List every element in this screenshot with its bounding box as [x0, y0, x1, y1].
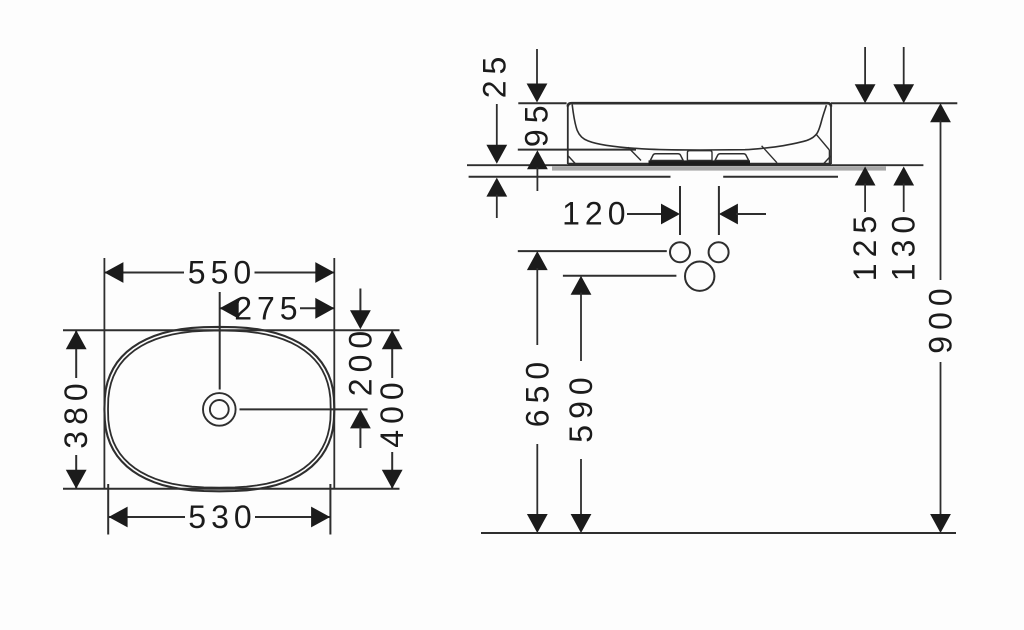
dim 200 upper tail [359, 289, 361, 314]
dim 380 line bottom segment [75, 455, 77, 489]
dim 530 left arrow [109, 507, 128, 528]
dim 125 lower tail [864, 184, 866, 213]
drain inner circle [210, 400, 229, 419]
dim 200 lower arrow [350, 409, 371, 428]
dim 95 lower tail [536, 168, 538, 192]
dim 900 upper arrow [930, 103, 951, 122]
dim 95 ref line bottom [518, 149, 636, 151]
dim 275 line left segment [220, 307, 232, 309]
top rim extension line right [831, 102, 957, 104]
dim 200 upper arrow [350, 310, 371, 329]
dim 400 top arrow [382, 330, 403, 349]
dim 400 bottom arrow [382, 470, 403, 489]
basin right outer wall [830, 105, 832, 164]
dim 200 lower tail [359, 427, 361, 449]
dim 120 left extension line [679, 186, 681, 235]
dim 95 upper tail [536, 49, 538, 87]
right inner extension line (530) [329, 484, 331, 535]
dim 590 lower arrow [571, 514, 592, 533]
dim 530 right arrow [311, 507, 330, 528]
svg-text:380: 380 [58, 377, 94, 448]
center drain plug [687, 151, 712, 161]
dim 275 left arrow [220, 298, 239, 319]
dim 550 line left segment [104, 272, 184, 274]
countertop underside left segment [469, 176, 671, 178]
floor line [481, 532, 956, 534]
svg-text:400: 400 [374, 376, 410, 447]
svg-text:125: 125 [847, 210, 883, 281]
basin top rim line (side view) [568, 103, 831, 106]
drain recess right slope [762, 146, 777, 163]
dim 130 lower arrow [893, 167, 914, 186]
right outer extension line [333, 258, 335, 489]
dim 130 lower tail [903, 184, 905, 213]
dim 125 lower arrow [855, 167, 876, 186]
dim 380 line top segment [75, 330, 77, 378]
left foot chamfer [568, 156, 575, 164]
svg-text:200: 200 [342, 325, 378, 396]
svg-text:275: 275 [234, 290, 302, 326]
dim 400 line top segment [391, 330, 393, 378]
drain horizontal reference line [240, 408, 368, 410]
countertop underside right segment [723, 176, 838, 178]
dim 380 top arrow [66, 330, 87, 349]
right foot chamfer [824, 156, 831, 164]
overflow channel diagonal [816, 134, 829, 150]
faucet hole center (large circle) [685, 262, 714, 291]
dim 900 lower arrow [930, 514, 951, 533]
dim 25 lower tail [496, 195, 498, 218]
left outer extension line [103, 258, 105, 489]
dim 530 line left segment [108, 516, 185, 518]
countertop top line [467, 164, 923, 166]
dim 275 right arrow [315, 298, 334, 319]
centerline vertical to drain [219, 292, 221, 390]
left strainer cover [650, 154, 683, 161]
dim 130 upper arrow [893, 84, 914, 103]
dim 95 ref line top [518, 102, 566, 104]
basin outer rim (top view) [104, 327, 334, 491]
left inner extension line (530) [107, 484, 109, 535]
dim 95 upper arrow [527, 84, 548, 103]
dim 380 bottom arrow [66, 470, 87, 489]
basin bottom line [568, 163, 831, 165]
dim 900 upper tail [940, 120, 942, 280]
svg-text:650: 650 [519, 356, 555, 427]
basin left outer wall [567, 105, 569, 164]
dim 120 right-pointing arrow [661, 204, 680, 225]
dim 650 upper tail [536, 268, 538, 345]
dim 650 ref line [518, 250, 667, 252]
dim 120 left-pointing arrow [719, 204, 738, 225]
svg-text:95: 95 [519, 100, 555, 148]
basin inner bowl profile [572, 105, 826, 150]
svg-text:25: 25 [477, 51, 513, 99]
svg-text:130: 130 [886, 210, 922, 281]
dim 95 lower arrow [527, 150, 548, 169]
dim 590 ref line [563, 275, 677, 277]
dim 25 upper tail [496, 104, 498, 148]
drain base dark bar [649, 160, 751, 165]
svg-text:550: 550 [188, 255, 256, 291]
overflow channel wall [828, 150, 830, 164]
drain outer circle [203, 393, 236, 426]
bottom tangent extension line [63, 488, 400, 490]
dim 25 lower arrow [486, 178, 507, 197]
svg-text:590: 590 [563, 371, 599, 442]
right strainer cover [715, 154, 749, 161]
dim 120 left tail [627, 213, 663, 215]
dim 650 lower tail [536, 444, 538, 516]
faucet hole right (small circle) [709, 242, 729, 262]
dim 120 right tail [736, 213, 766, 215]
dim 590 lower tail [580, 459, 582, 516]
faucet hole left (small circle) [670, 242, 690, 262]
dim 400 line bottom segment [391, 452, 393, 489]
dim 650 lower arrow [527, 514, 548, 533]
dim 550 right arrow [315, 262, 334, 283]
dim 590 upper arrow [571, 276, 592, 295]
dim 530 line right segment [255, 516, 330, 518]
countertop slab (gray) [552, 166, 886, 170]
top tangent extension line [63, 329, 400, 331]
dim 550 left arrow [104, 262, 123, 283]
dim 590 upper tail [580, 293, 582, 362]
dim 130 upper tail [903, 47, 905, 86]
dim 900 lower tail [940, 362, 942, 516]
dim 650 upper arrow [527, 251, 548, 270]
dim 120 right extension line [718, 186, 720, 235]
basin inner rim (top view) [108, 331, 331, 488]
dim 25 upper arrow [486, 145, 507, 164]
dim 125 upper tail [864, 47, 866, 86]
svg-text:900: 900 [923, 282, 959, 353]
dim 550 line right segment [255, 272, 335, 274]
drain recess left slope [628, 147, 641, 160]
svg-text:120: 120 [562, 196, 630, 232]
svg-text:530: 530 [188, 499, 256, 535]
dim 125 upper arrow [855, 84, 876, 103]
dim 275 line right segment [300, 307, 334, 309]
